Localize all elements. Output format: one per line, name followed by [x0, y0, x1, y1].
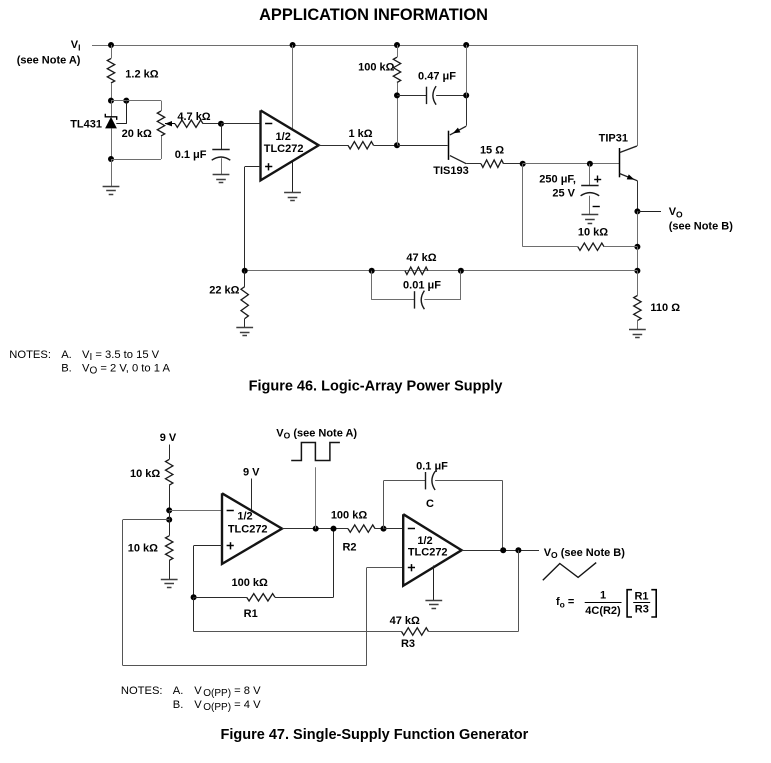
wire plus to R1 node: [194, 546, 223, 598]
wire R1 node down: [193, 597, 195, 631]
wire 1.2k to TL431 node: [111, 83, 113, 101]
capacitor 0.1 uF: [175, 124, 231, 175]
ground 250uF: [582, 215, 599, 224]
svg-text:TLC272: TLC272: [228, 524, 268, 536]
svg-text:B.: B.: [61, 362, 72, 374]
resistor 10 kOhm: [523, 226, 638, 250]
wire top VI rail: [92, 45, 637, 47]
svg-text:fo =: fo =: [556, 596, 574, 610]
ground opamp U1A: [284, 193, 301, 201]
svg-text:Figure 47. Single-Supply Funct: Figure 47. Single-Supply Function Genera…: [221, 727, 529, 743]
svg-text:VO(PP) = 4 V: VO(PP) = 4 V: [194, 699, 261, 713]
svg-text:110 Ω: 110 Ω: [650, 302, 680, 314]
op-amp U2A 1/2 TLC272: [222, 493, 282, 564]
wire to TIP31 base: [523, 163, 620, 165]
resistor 4.7 kOhm: [175, 111, 211, 127]
ground divider: [161, 580, 178, 588]
svg-text:TIS193: TIS193: [433, 165, 468, 177]
svg-text:VI = 3.5 to 15 V: VI = 3.5 to 15 V: [82, 349, 160, 363]
svg-text:0.1 μF: 0.1 μF: [175, 149, 207, 161]
node cap C right junction: [500, 547, 506, 553]
resistor R1 100 kOhm: [194, 577, 334, 620]
caption figure 46: [249, 378, 503, 394]
wire minus node to U2B: [384, 528, 404, 530]
wire TL431 ref connection: [116, 101, 126, 124]
svg-text:20 kΩ: 20 kΩ: [122, 128, 152, 140]
wire feedback row: [245, 270, 638, 272]
node 100k bottom junction: [394, 92, 400, 98]
ground 22k: [236, 328, 253, 336]
node 47k left junction: [369, 268, 375, 274]
svg-text:TIP31: TIP31: [599, 132, 628, 144]
capacitor C 0.1 uF: [384, 461, 503, 549]
capacitor 250 uF: [539, 164, 601, 215]
svg-text:TLC272: TLC272: [264, 143, 304, 155]
node VI label: [17, 39, 81, 67]
resistor 10 kOhm lower: [128, 536, 173, 561]
wire anode to pot bottom: [111, 159, 161, 161]
wire squarewave probe: [315, 467, 317, 528]
resistor 22 kOhm: [209, 271, 248, 328]
svg-text:15 Ω: 15 Ω: [480, 144, 504, 156]
wire VO stub: [637, 211, 661, 213]
node 9V supply 2 label: [243, 466, 260, 478]
node R3 top junction: [515, 547, 521, 553]
wire 0.47uF to rail: [466, 45, 468, 95]
wire emitter drop: [466, 95, 468, 125]
wire 15ohm node down: [522, 164, 524, 247]
node VO junction: [634, 208, 640, 214]
svg-text:9 V: 9 V: [160, 432, 177, 444]
node 47k right junction: [458, 268, 464, 274]
ground U2B: [425, 601, 442, 609]
svg-text:NOTES:: NOTES:: [121, 685, 163, 697]
svg-text:TL431: TL431: [70, 119, 102, 131]
potentiometer 20 kOhm: [122, 101, 165, 159]
svg-text:APPLICATION INFORMATION: APPLICATION INFORMATION: [259, 6, 488, 24]
waveform square wave: [291, 443, 340, 461]
resistor 1.2 kOhm: [107, 59, 158, 84]
svg-text:22 kΩ: 22 kΩ: [209, 285, 239, 297]
svg-text:1 kΩ: 1 kΩ: [348, 128, 372, 140]
capacitor 0.47 uF: [397, 71, 466, 105]
wire opamp output: [319, 145, 348, 147]
svg-text:100 kΩ: 100 kΩ: [331, 510, 368, 522]
wire node B segment: [169, 510, 171, 535]
resistor R2 100 kOhm: [331, 510, 375, 554]
node junction 0.47uF top: [463, 42, 469, 48]
wire VI to 1.2k: [111, 45, 113, 59]
svg-text:100 kΩ: 100 kΩ: [358, 62, 395, 74]
node VO triangle label: [544, 547, 626, 560]
waveform triangle wave: [543, 563, 596, 581]
wire 9V lead 2: [251, 479, 253, 513]
TL431 shunt regulator D1: [70, 101, 117, 159]
svg-text:4.7 kΩ: 4.7 kΩ: [177, 111, 210, 123]
node VO squarewave label: [276, 427, 357, 440]
resistor 47 kOhm: [405, 252, 437, 275]
wire 10k lower to ground: [169, 560, 171, 579]
svg-text:1/2: 1/2: [237, 511, 252, 523]
node 15ohm junction: [520, 161, 526, 167]
resistor 100 kOhm: [358, 45, 401, 95]
svg-text:(see Note A): (see Note A): [17, 55, 81, 67]
wire R1 up to output: [333, 529, 335, 598]
svg-text:R1: R1: [634, 591, 648, 603]
svg-text:R1: R1: [244, 608, 258, 620]
node feedback right junction: [634, 268, 640, 274]
node divider junction B: [166, 517, 172, 523]
notes figure 46: [9, 349, 170, 377]
svg-text:R3: R3: [635, 603, 649, 615]
svg-text:4C(R2): 4C(R2): [585, 605, 621, 617]
svg-text:1/2: 1/2: [276, 131, 291, 143]
svg-text:Figure 46. Logic-Array Power S: Figure 46. Logic-Array Power Supply: [249, 378, 503, 394]
svg-text:10 kΩ: 10 kΩ: [130, 468, 160, 480]
svg-text:VO = 2 V, 0 to 1 A: VO = 2 V, 0 to 1 A: [82, 362, 170, 376]
node 0.47uF right junction: [463, 92, 469, 98]
node junction 100k top: [394, 42, 400, 48]
ground TL431: [103, 187, 120, 195]
svg-text:10 kΩ: 10 kΩ: [128, 543, 158, 555]
op-amp U2B 1/2 TLC272: [403, 514, 461, 586]
node feedback left junction: [242, 268, 248, 274]
svg-text:100 kΩ: 100 kΩ: [232, 577, 269, 589]
wire VO down: [637, 211, 639, 246]
svg-text:0.01 μF: 0.01 μF: [403, 279, 441, 291]
svg-text:B.: B.: [173, 699, 184, 711]
resistor R3 47 kOhm: [194, 615, 519, 650]
svg-text:1/2: 1/2: [417, 535, 432, 547]
wire node to opamp minus: [221, 123, 261, 125]
resistor 10 kOhm upper: [130, 459, 173, 485]
resistor 1 kOhm: [348, 128, 374, 149]
svg-text:TLC272: TLC272: [408, 546, 448, 558]
wire anode to ground: [111, 159, 113, 186]
node divider junction A: [166, 507, 172, 513]
wire U2B output row: [462, 550, 539, 552]
node junction VI-R1: [108, 42, 114, 48]
svg-text:VO(PP) = 8 V: VO(PP) = 8 V: [194, 685, 261, 699]
wire divider to U2B plus: [123, 520, 404, 666]
svg-text:A.: A.: [61, 349, 72, 361]
wiper arrow: [165, 121, 175, 126]
ground 0.1uF: [213, 175, 230, 183]
svg-text:250 μF,: 250 μF,: [539, 174, 576, 186]
title APPLICATION INFORMATION: [259, 6, 488, 24]
wire opamp supply from rail: [292, 45, 294, 131]
wire divider to minus: [169, 510, 222, 512]
svg-text:47 kΩ: 47 kΩ: [390, 615, 420, 627]
wire plus input to feedback: [245, 167, 261, 271]
svg-text:C: C: [426, 498, 434, 510]
node 250uF junction: [587, 161, 593, 167]
wire R2 to minus node: [375, 528, 384, 530]
wire TIP31 collector drop: [637, 45, 639, 146]
resistor 110 Ohm: [634, 271, 681, 330]
node 9V supply label: [160, 432, 177, 444]
wire 10k node down: [637, 247, 639, 271]
svg-text:0.1 μF: 0.1 μF: [416, 461, 448, 473]
wire U2B ground stub: [433, 566, 435, 601]
wire opamp ground stub: [292, 160, 294, 193]
node R1 top junction: [331, 526, 337, 532]
wire node to pot top: [111, 100, 161, 102]
svg-text:A.: A.: [173, 685, 184, 697]
wire 9V lead: [169, 445, 171, 460]
wire 1k to base node: [374, 145, 398, 147]
svg-text:9 V: 9 V: [243, 466, 260, 478]
node TL431 anode junction: [108, 156, 114, 162]
node squarewave junction: [313, 526, 319, 532]
capacitor 0.01 uF: [372, 271, 461, 309]
op-amp U1A 1/2 TLC272: [261, 110, 319, 180]
node R1 left junction: [191, 594, 197, 600]
wire U2A output row: [282, 528, 348, 530]
transistor Q1 TIS193: [397, 126, 469, 177]
svg-text:25 V: 25 V: [552, 188, 575, 200]
node base junction: [394, 142, 400, 148]
wire 10k to node: [169, 485, 171, 510]
formula fo: [556, 590, 656, 617]
node U2B minus junction: [381, 526, 387, 532]
caption figure 47: [221, 727, 529, 743]
svg-text:R3: R3: [401, 638, 415, 650]
node 10k right junction: [634, 244, 640, 250]
node inv input junction: [218, 121, 224, 127]
node VO label: [669, 206, 734, 233]
svg-text:1: 1: [600, 590, 606, 602]
svg-text:1.2 kΩ: 1.2 kΩ: [125, 69, 158, 81]
svg-text:10 kΩ: 10 kΩ: [578, 226, 608, 238]
resistor 15 Ohm: [466, 144, 523, 167]
svg-text:R2: R2: [342, 542, 356, 554]
wire R3 vertical: [518, 550, 520, 631]
wire base node up: [397, 95, 399, 145]
wire 4.7k to inv node: [203, 123, 221, 125]
svg-text:NOTES:: NOTES:: [9, 349, 51, 361]
svg-text:(see Note B): (see Note B): [669, 221, 734, 233]
svg-text:47 kΩ: 47 kΩ: [406, 252, 436, 264]
svg-text:0.47 μF: 0.47 μF: [418, 71, 456, 83]
notes figure 47: [121, 685, 261, 713]
ground 110ohm: [629, 330, 646, 338]
transistor Q2 TIP31: [599, 132, 638, 211]
node TL431 cathode junction: [108, 98, 114, 104]
node junction opamp supply: [290, 42, 296, 48]
node TL431 ref junction: [123, 98, 129, 104]
